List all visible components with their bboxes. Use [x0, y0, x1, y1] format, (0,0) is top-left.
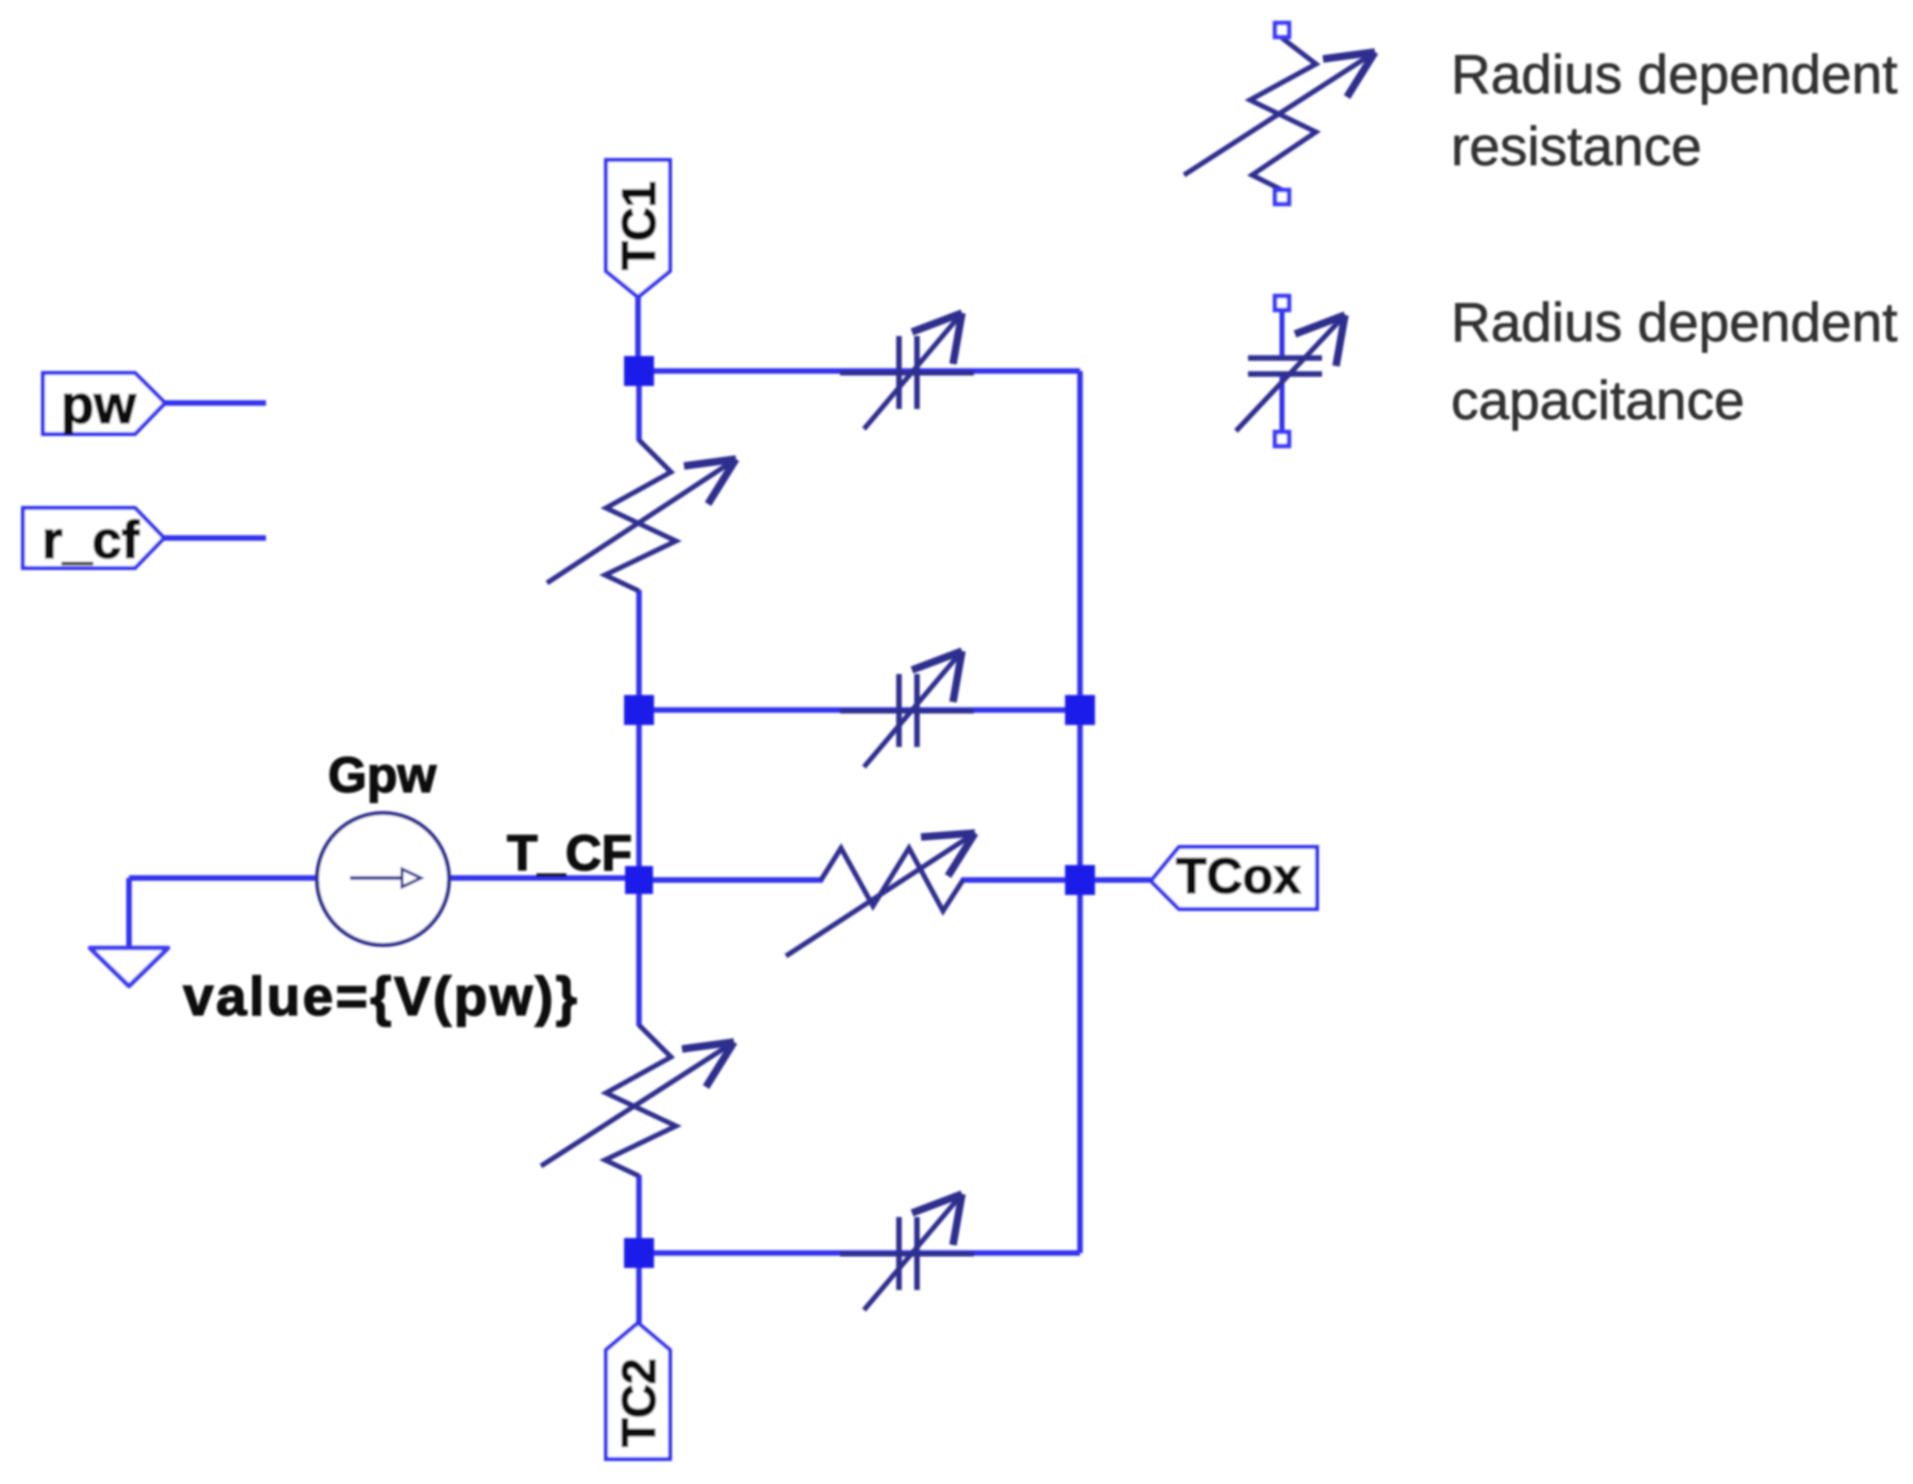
svg-text:pw: pw	[61, 375, 137, 435]
svg-text:resistance: resistance	[1451, 115, 1702, 177]
svg-text:T_CF: T_CF	[507, 825, 632, 881]
svg-text:capacitance: capacitance	[1451, 369, 1745, 431]
svg-text:Gpw: Gpw	[328, 747, 436, 803]
svg-text:r_cf: r_cf	[42, 511, 140, 570]
svg-text:Radius dependent: Radius dependent	[1451, 291, 1897, 353]
svg-text:TC2: TC2	[612, 1358, 665, 1447]
svg-text:TC1: TC1	[612, 181, 665, 270]
svg-text:Radius dependent: Radius dependent	[1451, 43, 1897, 105]
svg-text:value={V(pw)}: value={V(pw)}	[183, 965, 579, 1027]
svg-text:TCox: TCox	[1176, 848, 1301, 904]
